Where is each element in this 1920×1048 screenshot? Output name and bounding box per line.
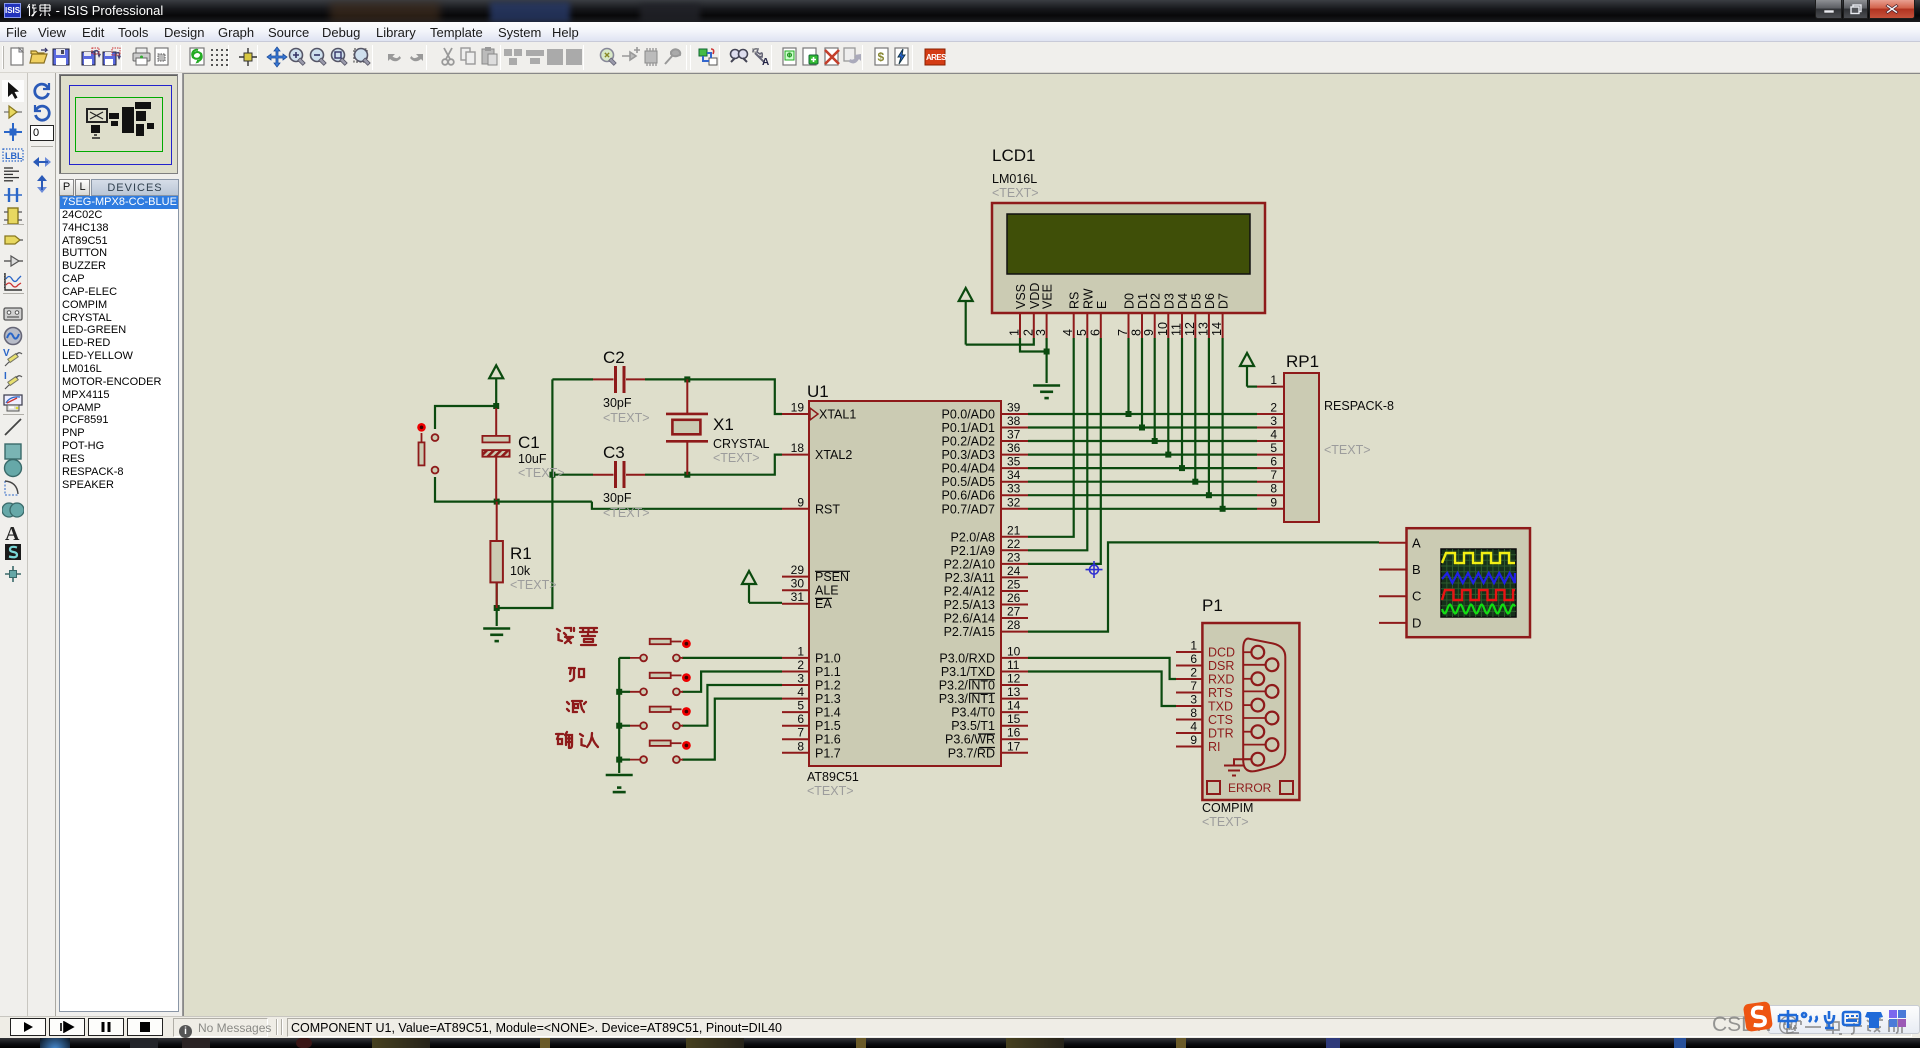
svg-text:P1.5: P1.5 (815, 719, 841, 733)
svg-text:RESPACK-8: RESPACK-8 (1324, 399, 1394, 413)
svg-text:4: 4 (1190, 720, 1197, 734)
svg-text:XTAL1: XTAL1 (819, 408, 856, 422)
svg-text:R1: R1 (510, 544, 532, 563)
wire button 3 left (616, 723, 630, 729)
svg-text:P1: P1 (1202, 596, 1223, 615)
svg-text:1: 1 (1270, 373, 1277, 387)
power VCC arrow near EA (742, 571, 756, 603)
cursor crosshair (1086, 561, 1103, 578)
svg-text:6: 6 (1190, 652, 1197, 666)
resistor pack RP1 RESPACK-8 (1257, 352, 1394, 522)
connector P1 COMPIM (1176, 596, 1299, 829)
svg-text:7: 7 (1190, 679, 1197, 693)
svg-text:8: 8 (797, 739, 804, 753)
svg-text:EA: EA (815, 597, 832, 611)
svg-text:P3.2/INT0: P3.2/INT0 (939, 679, 995, 693)
svg-text:8: 8 (1270, 482, 1277, 496)
svg-text:10: 10 (1007, 644, 1021, 658)
svg-text:CTS: CTS (1208, 713, 1233, 727)
svg-text:P3.5/T1: P3.5/T1 (951, 719, 995, 733)
svg-text:<TEXT>: <TEXT> (992, 186, 1039, 200)
svg-text:RST: RST (815, 502, 840, 516)
wire P3.1 to TXD (1028, 672, 1176, 707)
wire D0 to P0.0/RP1 (1028, 338, 1257, 417)
svg-text:P3.3/INT1: P3.3/INT1 (939, 692, 995, 706)
wire D4 to P0.4/RP1 (1028, 338, 1257, 471)
power VCC arrow near RP1 (1240, 353, 1254, 387)
svg-text:14: 14 (1007, 699, 1021, 713)
wire P2.7 to oscilloscope A (1028, 542, 1379, 631)
svg-text:6: 6 (1088, 329, 1102, 336)
svg-text:D7: D7 (1217, 293, 1231, 309)
svg-text:LM016L: LM016L (992, 172, 1037, 186)
resistor R1 10k (490, 502, 556, 608)
svg-text:13: 13 (1196, 322, 1210, 336)
svg-text:27: 27 (1007, 605, 1021, 619)
svg-text:P0.3/AD3: P0.3/AD3 (941, 448, 995, 462)
svg-text:RP1: RP1 (1286, 352, 1319, 371)
wire button 1 to P1.0 (682, 657, 782, 659)
svg-text:33: 33 (1007, 482, 1021, 496)
svg-text:P2.2/A10: P2.2/A10 (944, 557, 995, 571)
svg-text:11: 11 (1007, 658, 1020, 672)
svg-text:3: 3 (797, 672, 804, 686)
svg-text:9: 9 (1142, 329, 1156, 336)
svg-text:P2.5/A13: P2.5/A13 (944, 598, 995, 612)
svg-text:D0: D0 (1123, 293, 1137, 309)
wire D6 to P0.6/RP1 (1028, 338, 1257, 498)
node label Jia (Chinese) (569, 668, 584, 681)
svg-text:ERROR: ERROR (1228, 781, 1272, 795)
svg-text:P0.4/AD4: P0.4/AD4 (941, 462, 995, 476)
svg-text:2: 2 (797, 658, 804, 672)
svg-text:23: 23 (1007, 550, 1021, 564)
svg-text:18: 18 (791, 441, 805, 455)
ground below R1 (483, 629, 510, 642)
wire E to P2.2 (1028, 338, 1101, 564)
svg-text:7: 7 (797, 726, 804, 740)
wire button 2 left (616, 689, 630, 695)
svg-text:<TEXT>: <TEXT> (518, 466, 565, 480)
wire D5 to P0.5/RP1 (1028, 338, 1257, 485)
wire C2 right to XTAL1 (645, 376, 782, 414)
svg-text:I: I (4, 371, 7, 382)
svg-text:VSS: VSS (1014, 284, 1028, 309)
svg-text:10uF: 10uF (518, 452, 547, 466)
svg-text:$: $ (878, 50, 885, 64)
svg-text:12: 12 (1183, 322, 1197, 336)
svg-text:P2.6/A14: P2.6/A14 (944, 612, 995, 626)
svg-text:<TEXT>: <TEXT> (1202, 815, 1249, 829)
svg-text:RTS: RTS (1208, 686, 1233, 700)
svg-text:P0.6/AD6: P0.6/AD6 (941, 489, 995, 503)
svg-text:P2.3/A11: P2.3/A11 (944, 571, 995, 585)
svg-text:LCD1: LCD1 (992, 146, 1035, 165)
svg-text:13: 13 (1007, 685, 1021, 699)
wire button 3 to P1.2 (682, 685, 782, 726)
svg-text:16: 16 (1007, 726, 1021, 740)
ground below VEE (1033, 386, 1060, 399)
button key 3 (630, 707, 691, 730)
svg-text:5: 5 (1075, 329, 1089, 336)
svg-text:DSR: DSR (1208, 659, 1234, 673)
svg-text:10: 10 (1156, 322, 1170, 336)
crystal X1 (666, 379, 770, 474)
button key 4 (630, 741, 691, 763)
oscilloscope instrument (1379, 528, 1530, 637)
svg-text:3: 3 (1034, 329, 1048, 336)
wire D7 to P0.7/RP1 (1028, 338, 1257, 512)
wire RST (592, 502, 782, 509)
svg-text:26: 26 (1007, 591, 1021, 605)
svg-text:30: 30 (791, 577, 805, 591)
capacitor C2 30pF (593, 348, 650, 425)
svg-text:RW: RW (1081, 288, 1095, 309)
button key 2 (630, 673, 691, 695)
wire RP1 pin1 (1247, 386, 1257, 388)
power VCC arrow near LCD (959, 288, 973, 345)
svg-text:LBL: LBL (5, 151, 23, 161)
junction C1/R1 node (494, 499, 500, 505)
svg-text:10k: 10k (510, 564, 531, 578)
wire button 1 left (619, 657, 630, 659)
svg-text:4: 4 (1061, 329, 1075, 336)
wire D1 to P0.1/RP1 (1028, 338, 1257, 431)
svg-text:P3.0/RXD: P3.0/RXD (939, 651, 995, 665)
wire P3.0 to RXD (1028, 658, 1176, 679)
svg-text:25: 25 (1007, 578, 1021, 592)
capacitor C3 30pF (593, 443, 650, 520)
svg-text:37: 37 (1007, 428, 1021, 442)
svg-text:P0.2/AD2: P0.2/AD2 (941, 435, 995, 449)
svg-text:RI: RI (1208, 740, 1221, 754)
svg-text:4: 4 (1270, 428, 1277, 442)
junction C3 left (549, 472, 555, 478)
svg-text:35: 35 (1007, 455, 1021, 469)
wire button 4 to P1.3 (682, 699, 782, 760)
svg-text:6: 6 (1270, 455, 1277, 469)
svg-text:D4: D4 (1176, 293, 1190, 309)
svg-text:P1.7: P1.7 (815, 746, 841, 760)
svg-text:9: 9 (1270, 495, 1277, 509)
svg-text:P0.0/AD0: P0.0/AD0 (941, 408, 995, 422)
node label QueRen (Chinese) (556, 732, 598, 748)
svg-text:XTAL2: XTAL2 (815, 448, 852, 462)
svg-text:ARES: ARES (926, 53, 946, 62)
svg-text:9: 9 (797, 495, 804, 509)
wire node to cap branch vertical (497, 379, 553, 608)
button reset (vertical) (417, 423, 438, 474)
svg-text:RXD: RXD (1208, 673, 1234, 687)
svg-text:D6: D6 (1203, 293, 1217, 309)
svg-text:P0.7/AD7: P0.7/AD7 (941, 502, 995, 516)
svg-text:P2.7/A15: P2.7/A15 (944, 625, 995, 639)
svg-text:COMPIM: COMPIM (1202, 801, 1253, 815)
svg-text:<TEXT>: <TEXT> (603, 506, 650, 520)
wire button bottom to common node (435, 477, 592, 502)
svg-text:3: 3 (1190, 693, 1197, 707)
button key 1 (630, 639, 691, 662)
svg-text:31: 31 (791, 590, 805, 604)
svg-text:30pF: 30pF (603, 396, 632, 410)
wire C2 left (552, 378, 593, 380)
svg-text:CRYSTAL: CRYSTAL (713, 437, 770, 451)
svg-text:28: 28 (1007, 618, 1021, 632)
svg-text:P1.0: P1.0 (815, 651, 841, 665)
svg-text:2: 2 (1190, 666, 1197, 680)
svg-text:X1: X1 (713, 415, 734, 434)
svg-text:21: 21 (1007, 523, 1021, 537)
wire EA (749, 602, 782, 604)
svg-text:P2.4/A12: P2.4/A12 (944, 585, 995, 599)
svg-text:1: 1 (1008, 329, 1022, 336)
svg-text:D5: D5 (1189, 293, 1203, 309)
wire C3 left (552, 474, 593, 476)
svg-text:P3.7/RD: P3.7/RD (948, 746, 995, 760)
svg-text:19: 19 (791, 401, 805, 415)
svg-text:4: 4 (797, 685, 804, 699)
svg-text:D: D (1412, 615, 1421, 630)
svg-text:2: 2 (1270, 401, 1277, 415)
wire VSS to VEE node (1020, 338, 1047, 352)
svg-text:C2: C2 (603, 348, 625, 367)
svg-text:P3.4/T0: P3.4/T0 (951, 706, 995, 720)
svg-text:P3.1/TXD: P3.1/TXD (941, 665, 995, 679)
svg-text:A: A (762, 57, 769, 68)
svg-text:D2: D2 (1149, 293, 1163, 309)
wire VDD to VCC (966, 338, 1034, 345)
svg-text:38: 38 (1007, 414, 1021, 428)
svg-text:P1.2: P1.2 (815, 679, 841, 693)
LCD1 LM016L display (992, 146, 1265, 338)
svg-text:P2.0/A8: P2.0/A8 (951, 530, 996, 544)
svg-text:VEE: VEE (1041, 284, 1055, 309)
svg-text:P3.6/WR: P3.6/WR (945, 733, 995, 747)
svg-text:P1.3: P1.3 (815, 692, 841, 706)
op-amp U1 AT89C51 microcontroller (782, 382, 1028, 798)
svg-text:P1.1: P1.1 (815, 665, 841, 679)
svg-text:36: 36 (1007, 441, 1021, 455)
svg-text:B: B (1412, 562, 1421, 577)
svg-text:C: C (1412, 589, 1421, 604)
svg-text:U1: U1 (807, 382, 829, 401)
svg-text:DCD: DCD (1208, 646, 1235, 660)
svg-text:22: 22 (1007, 537, 1021, 551)
svg-text:P0.1/AD1: P0.1/AD1 (941, 421, 995, 435)
svg-text:A: A (1412, 535, 1421, 550)
svg-text:7: 7 (1116, 329, 1130, 336)
wire C3 right to XTAL2 (645, 455, 782, 478)
wire D3 to P0.3/RP1 (1028, 338, 1257, 458)
svg-text:E: E (1095, 301, 1109, 309)
svg-text:29: 29 (791, 563, 805, 577)
power VCC arrow near C1 (489, 365, 503, 406)
wire RW to P2.1 (1028, 338, 1087, 550)
capacitor C1 10uF electrolytic (482, 408, 564, 500)
svg-text:30pF: 30pF (603, 491, 632, 505)
wire button 2 to P1.1 (682, 672, 782, 692)
svg-text:32: 32 (1007, 495, 1021, 509)
svg-text:9: 9 (1190, 733, 1197, 747)
svg-text:PSEN: PSEN (815, 570, 849, 584)
svg-text:6: 6 (797, 712, 804, 726)
svg-text:12: 12 (1007, 672, 1021, 686)
wire VCC to button top (435, 403, 499, 429)
svg-text:ALE: ALE (815, 584, 839, 598)
svg-text:P2.1/A9: P2.1/A9 (951, 544, 996, 558)
svg-text:1: 1 (1190, 639, 1197, 653)
svg-text:V: V (3, 348, 10, 359)
svg-text:D3: D3 (1162, 293, 1176, 309)
svg-text:5: 5 (1270, 441, 1277, 455)
wire D2 to P0.2/RP1 (1028, 338, 1257, 444)
svg-text:<TEXT>: <TEXT> (1324, 443, 1371, 457)
svg-text:34: 34 (1007, 468, 1021, 482)
svg-text:TXD: TXD (1208, 700, 1233, 714)
wire button common rail (618, 658, 620, 773)
wire RS to P2.0 (1028, 338, 1074, 537)
svg-text:P0.5/AD5: P0.5/AD5 (941, 475, 995, 489)
svg-text:1: 1 (797, 644, 804, 658)
svg-text:RS: RS (1068, 292, 1082, 309)
svg-text:AT89C51: AT89C51 (807, 770, 859, 784)
ground below buttons (606, 775, 633, 792)
svg-text:17: 17 (1007, 739, 1021, 753)
node label SheZhi (Chinese) (557, 628, 597, 645)
svg-text:<TEXT>: <TEXT> (713, 451, 760, 465)
wire VEE to ground (1044, 338, 1050, 383)
svg-text:3: 3 (1270, 414, 1277, 428)
svg-text:C1: C1 (518, 433, 540, 452)
node label Jian (Chinese) (567, 701, 586, 712)
svg-text:24: 24 (1007, 564, 1021, 578)
svg-text:14: 14 (1210, 322, 1224, 336)
wire button 4 left (616, 757, 630, 763)
svg-text:8: 8 (1190, 706, 1197, 720)
svg-text:<TEXT>: <TEXT> (807, 784, 854, 798)
svg-text:<TEXT>: <TEXT> (510, 578, 557, 592)
svg-text:11: 11 (1170, 323, 1184, 336)
svg-text:P1.6: P1.6 (815, 733, 841, 747)
svg-text:15: 15 (1007, 712, 1021, 726)
svg-text:7: 7 (1270, 468, 1277, 482)
svg-text:39: 39 (1007, 401, 1021, 415)
svg-text:C3: C3 (603, 443, 625, 462)
svg-text:<TEXT>: <TEXT> (603, 411, 650, 425)
svg-text:5: 5 (797, 699, 804, 713)
wire R1 bottom to ground node (494, 582, 500, 626)
svg-text:DTR: DTR (1208, 727, 1234, 741)
svg-text:P1.4: P1.4 (815, 706, 841, 720)
